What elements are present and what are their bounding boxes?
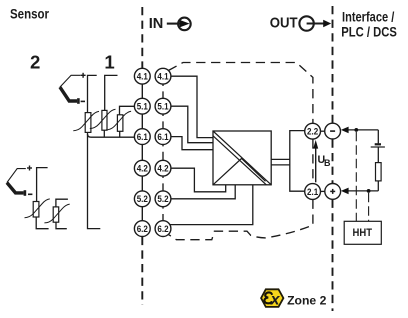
amplifier triangle (213, 159, 266, 185)
wire stub 5.2 row to RTD RB2 (56, 199, 68, 207)
svg-text:4.1: 4.1 (137, 72, 149, 83)
svg-text:Zone 2: Zone 2 (287, 294, 326, 308)
svg-text:6.1: 6.1 (137, 132, 149, 143)
supply wire right vertical upper (377, 130, 379, 144)
terminal 4.1 left (134, 68, 150, 84)
connector 2.2 to minus (321, 130, 325, 132)
svg-text:PLC / DCS: PLC / DCS (341, 24, 397, 40)
connector 2.1 to plus (321, 190, 325, 192)
HHT box (344, 221, 381, 244)
dashed wire to HHT right (368, 193, 370, 222)
terminal 5.2 right (155, 191, 171, 207)
IN icon (arrow into circle) (167, 18, 191, 31)
wire 5.2 to block bottom pin 2 (171, 185, 235, 199)
terminal 5.1 right (155, 98, 171, 114)
RTD R3 bottom lead (119, 131, 121, 137)
wire stub 4.2 row to RTD RB1 (37, 168, 48, 202)
zone separator line OUT side (dashed) (332, 6, 334, 311)
isolator block U1 (213, 131, 271, 185)
svg-text:5.1: 5.1 (137, 102, 149, 113)
RTD R2 (thermistor) (102, 110, 107, 130)
terminal 6.1 right (155, 129, 171, 145)
TC1 minus sign (81, 100, 85, 102)
solid link 6.1-4.2 (141, 145, 143, 161)
solid link 5.1-6.1 (141, 114, 143, 129)
terminal 6.1 left (134, 129, 150, 145)
wire stub 4.1 row to RTD R1 (88, 75, 97, 112)
RTD RB2 diagonal (44, 204, 69, 223)
junction dot top (354, 128, 358, 132)
battery B1 (375, 143, 381, 145)
svg-text:OUT: OUT (270, 16, 298, 32)
svg-text:x: x (270, 291, 281, 308)
RTD R2 diagonal (90, 109, 116, 128)
thermocouple TC1 (60, 75, 81, 104)
svg-text:5.2: 5.2 (137, 194, 148, 205)
svg-text:4.1: 4.1 (157, 72, 169, 83)
RTD RB1 bottom lead to 6.2 row stub (36, 217, 48, 229)
wire 4.2 to block bottom pin 1 (171, 168, 226, 192)
Ex hexagon logo (261, 289, 283, 308)
terminal 4.1 right (155, 68, 171, 84)
wire 6.1 to block (171, 137, 213, 150)
solid link 4.1-5.1 (141, 84, 143, 98)
thermocouple TC2 (7, 169, 26, 196)
isolation barrier diagonal 2 (213, 136, 266, 185)
RTD RB2 bottom lead to 6.2 row stub (56, 222, 67, 229)
zone separator line IN side (dashed) (141, 7, 143, 305)
terminal 2.2 (305, 123, 321, 139)
terminal minus (325, 123, 341, 139)
dashed wire to HHT left (355, 132, 357, 222)
solid link 5.2-6.2 (141, 207, 143, 221)
wire stub 4.1 row to RTD R2 (105, 75, 118, 110)
TC1 plus sign (81, 73, 86, 78)
terminal 6.2 right (155, 221, 171, 237)
wire 5.1 to RTD R3 (120, 106, 135, 115)
terminal 5.2 left (134, 191, 150, 207)
svg-text:IN: IN (149, 16, 164, 32)
TC2 minus sign (28, 193, 32, 195)
UB arrow (315, 148, 317, 183)
terminal 2.1 (305, 184, 321, 200)
wire 5.1 to block (171, 106, 213, 143)
terminal 5.1 left (134, 98, 150, 114)
RTD R2 bottom lead (103, 130, 105, 137)
svg-text:6.1: 6.1 (157, 132, 169, 143)
device boundary dashes between right terminals (162, 84, 164, 221)
RTD RB2 (thermistor) (53, 207, 59, 222)
wire 4.1 to block (171, 76, 213, 137)
svg-text:B: B (324, 158, 331, 168)
wire resistor down (377, 181, 379, 191)
solid link 4.2-5.2 (141, 176, 143, 191)
RTD R3 (thermistor) (117, 115, 123, 132)
svg-text:5.1: 5.1 (157, 102, 169, 113)
wire block bottom pin 3 to 6.2 (170, 185, 253, 225)
supply wire bottom with arrow into plus (347, 190, 378, 192)
resistor R1 (376, 163, 382, 181)
junction dot bottom (367, 189, 371, 193)
RTD R1 diagonal (73, 111, 99, 130)
supply wire top with arrow into minus (347, 129, 378, 131)
terminal plus (325, 184, 341, 200)
svg-text:6.2: 6.2 (137, 224, 148, 235)
RTD RB1 (thermistor) (33, 202, 39, 218)
terminal 4.2 right (155, 160, 171, 176)
RTD R1 (thermistor) (85, 113, 91, 133)
RTD bottom bus to 6.1 (88, 134, 135, 137)
TC2 plus sign (27, 166, 32, 171)
svg-text:5.2: 5.2 (157, 194, 168, 205)
RTD R3 diagonal (106, 111, 131, 130)
isolation barrier diagonal 1 (213, 131, 271, 185)
terminal 6.2 left (134, 221, 150, 237)
wire battery to resistor (377, 147, 379, 163)
svg-text:1: 1 (104, 52, 114, 73)
svg-text:Interface /: Interface / (342, 8, 394, 24)
svg-text:2.1: 2.1 (307, 187, 319, 198)
svg-text:4.2: 4.2 (137, 164, 148, 175)
svg-text:2.2: 2.2 (307, 127, 318, 138)
svg-text:4.2: 4.2 (157, 164, 168, 175)
RTD RB1 diagonal (25, 199, 50, 218)
terminal 4.2 left (134, 160, 150, 176)
svg-text:6.2: 6.2 (157, 224, 168, 235)
svg-text:2: 2 (30, 52, 40, 73)
svg-text:Sensor: Sensor (10, 6, 49, 22)
device boundary top (dashed) (168, 63, 313, 240)
OUT icon (circle with arrow out) (299, 16, 324, 30)
svg-text:HHT: HHT (353, 227, 373, 239)
block right pins (271, 158, 290, 160)
wire to 2.2 and 2.1 (290, 131, 305, 192)
RTD R1 long lead down to 6.2 row stub (88, 132, 101, 228)
